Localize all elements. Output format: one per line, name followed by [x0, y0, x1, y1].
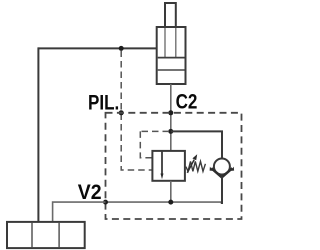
tank block: internal divider lines [32, 223, 59, 247]
pilot line PIL: dashed vertical from tap down then right into valve left port [121, 51, 152, 171]
wire: C2 line from cylinder cap port down to valve top port [170, 84, 172, 151]
valve V1: internal flow arrow line [161, 151, 163, 174]
node: dot where V2 rail meets dashed enclosure left edge [103, 200, 108, 205]
cylinder U1: rod rectangle [165, 3, 176, 27]
svg-text:PIL.: PIL. [88, 91, 119, 115]
check valve CV1: left seat tip flare [210, 167, 214, 171]
spring: adjustment arrow shaft [187, 160, 194, 173]
pilot line: dashed internal pilot from C2 junction left and down into valve upper left port [140, 130, 169, 132]
wire: valve bottom port down to V2 rail [170, 181, 172, 202]
check valve CV1: right seat tip flare [231, 167, 235, 171]
cylinder U1: piston lower line [158, 69, 185, 71]
node: dot where PIL pilot line crosses dashed enclosure top edge [119, 110, 124, 115]
svg-text:V2: V2 [78, 180, 102, 204]
wire: top horizontal line from left branch to cylinder rod-side port [38, 47, 156, 49]
pilot line: dashed corner down to valve upper-left port [140, 131, 152, 157]
spring: adjustable spring zigzag on valve right side [186, 161, 206, 171]
wire: check valve bottom drop to rail corner [221, 177, 222, 204]
cylinder U1: barrel body [157, 27, 186, 84]
node: junction dot on C2 line at check-valve branch [168, 129, 173, 134]
spring: adjustment arrowhead [192, 154, 197, 160]
wire: left vertical line down to tank block [37, 47, 39, 222]
check valve CV1: V seat [211, 168, 232, 177]
node: junction dot on top line (pilot tap) [119, 46, 124, 51]
node: junction dot valve-bottom on V2 rail [168, 200, 173, 205]
valve V1: counterbalance valve square body [152, 151, 185, 181]
wire: V2 rail inside enclosure from left edge to check valve bottom [106, 201, 222, 203]
enclosure: dashed cartridge boundary box [106, 113, 242, 219]
cylinder U1: rod sides inside barrel [165, 28, 176, 58]
wire: branch from C2 junction right and down to check valve top [171, 131, 222, 158]
tank block: three-cell rectangle at bottom left [7, 222, 85, 248]
cylinder U1: piston band lines [158, 57, 185, 59]
check valve CV1: circle [214, 159, 230, 175]
valve V1: internal flow arrowhead pointing down [161, 174, 164, 180]
wire: V2 line from enclosure left edge to down-leg [53, 202, 106, 222]
svg-text:C2: C2 [176, 90, 198, 114]
node: dot where C2 line crosses dashed enclosure top edge [168, 110, 173, 115]
